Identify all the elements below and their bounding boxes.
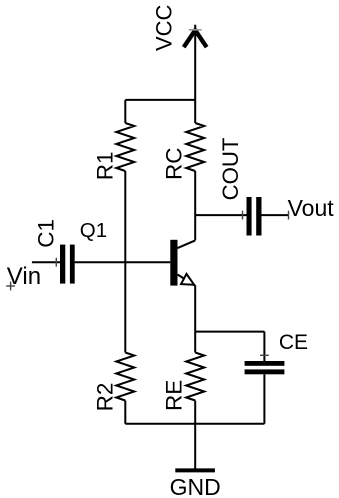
svg-text:Vout: Vout <box>288 195 335 221</box>
svg-text:R1: R1 <box>93 151 118 180</box>
power VCC arrow <box>184 25 207 123</box>
resistor R2 <box>116 262 134 424</box>
pin tick COUT left <box>242 211 244 220</box>
svg-text:RE: RE <box>162 380 187 411</box>
resistor R1 <box>116 100 134 262</box>
pin tick CE top <box>260 354 269 356</box>
svg-text:RC: RC <box>161 148 186 181</box>
capacitor COUT <box>195 197 288 236</box>
wire emitter junction <box>195 331 264 333</box>
svg-text:VCC: VCC <box>151 4 176 51</box>
pin tick Vout end <box>288 211 290 220</box>
wire Vin to C1 <box>32 261 60 263</box>
svg-text:R2: R2 <box>92 383 117 412</box>
wire top rail <box>125 99 195 101</box>
ground bar <box>175 468 215 472</box>
capacitor C1 <box>60 245 170 284</box>
svg-text:CE: CE <box>279 331 308 354</box>
svg-text:Q1: Q1 <box>80 219 107 242</box>
svg-text:C1: C1 <box>33 219 58 248</box>
wire ground stem <box>194 424 196 471</box>
pin marker VCC (gray cross) <box>189 29 202 31</box>
svg-text:Vin: Vin <box>7 263 41 290</box>
resistor RE <box>186 332 204 424</box>
svg-text:COUT: COUT <box>218 137 243 200</box>
capacitor CE <box>245 332 285 424</box>
resistor RC <box>186 123 204 171</box>
wire bottom rail <box>125 423 264 425</box>
wire RC to collector <box>194 171 196 240</box>
pin marker Vin (cross) <box>6 282 15 291</box>
pin tick C1 left <box>55 258 57 267</box>
transistor Q1 <box>170 240 195 332</box>
svg-text:GND: GND <box>170 474 221 498</box>
